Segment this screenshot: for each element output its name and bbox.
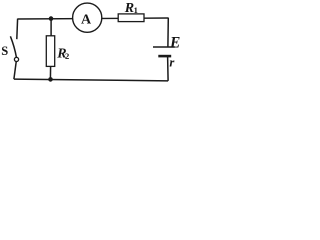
wire top (left corner to right corner) xyxy=(18,18,169,19)
switch S contact circle xyxy=(14,57,18,61)
battery E long plate xyxy=(153,46,175,48)
svg-text:r: r xyxy=(169,55,175,69)
svg-text:R: R xyxy=(124,1,134,16)
node junction dot top (R2 branch) xyxy=(49,16,54,21)
svg-text:A: A xyxy=(81,13,92,28)
resistor R2 box xyxy=(46,36,54,67)
resistor R1 box xyxy=(118,14,144,22)
wire left lower (switch contact down to bottom corner) xyxy=(14,61,16,79)
svg-text:S: S xyxy=(1,44,8,58)
switch S blade (open, tilted left) xyxy=(10,36,16,57)
svg-text:E: E xyxy=(169,34,180,51)
ammeter A circle xyxy=(73,3,102,32)
wire left upper (corner down to switch terminal) xyxy=(16,19,19,40)
svg-text:1: 1 xyxy=(134,5,138,15)
wire R2 branch lower xyxy=(49,66,51,79)
wire R2 branch upper xyxy=(50,19,52,36)
wire right lower (battery to bottom corner) xyxy=(167,56,170,81)
svg-text:2: 2 xyxy=(65,51,69,61)
node junction dot bottom (R2 branch) xyxy=(48,77,53,82)
battery E short plate (thick) xyxy=(158,55,171,58)
wire right (corner down to battery plate) xyxy=(167,18,169,47)
wire bottom (left corner to right corner) xyxy=(14,79,168,81)
